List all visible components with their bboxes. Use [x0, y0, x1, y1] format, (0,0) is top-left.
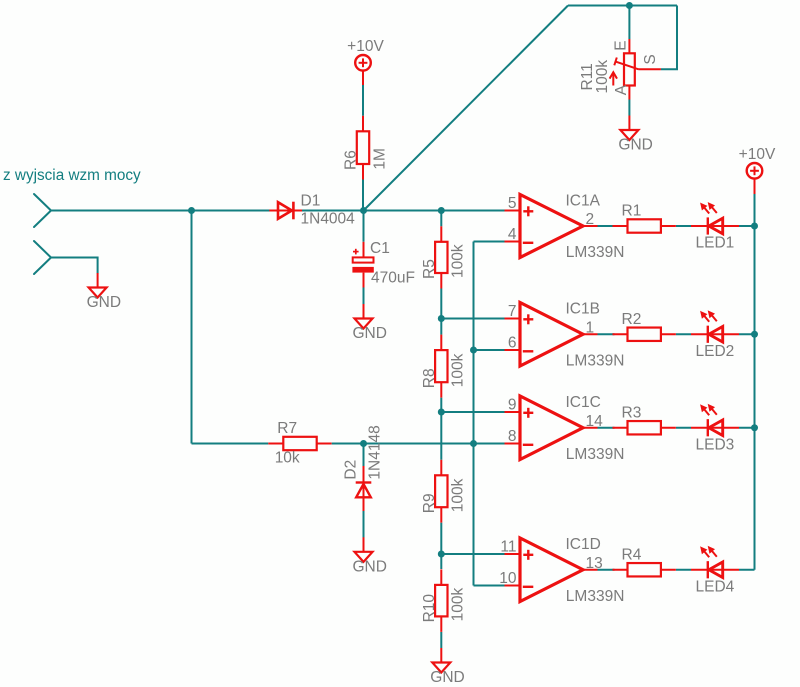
svg-text:7: 7 [508, 303, 517, 320]
ground GND3 pin [363, 304, 365, 319]
wire: signal node down to R5 [440, 211, 442, 227]
LED LED4 [709, 562, 723, 578]
op-amp IC1B output pin [583, 333, 598, 335]
svg-text:E: E [613, 40, 630, 50]
svg-text:1: 1 [586, 319, 595, 336]
svg-text:4: 4 [508, 226, 517, 243]
resistor R1 [628, 219, 661, 232]
resistor R3 pins [613, 427, 628, 429]
ground GND1 [89, 288, 107, 298]
LED LED2 pins [691, 333, 739, 335]
svg-text:R10: R10 [421, 594, 438, 623]
svg-text:1M: 1M [371, 148, 388, 170]
svg-text:LED1: LED1 [696, 235, 735, 252]
svg-text:R9: R9 [421, 493, 438, 513]
wire: R1 to LED [676, 225, 691, 227]
capacitor C1 plus mark [353, 251, 359, 253]
wire: node C to IC1D plus input [441, 553, 504, 555]
node B junction (R8/R9, IC1C+) [438, 409, 445, 416]
wire: D2 node to minus rail and IC1C minus input [364, 443, 505, 445]
wire: minus rail to IC1B minus input [474, 349, 505, 351]
wire: R2 to LED [676, 333, 691, 335]
wire: LED2 to +10V rail [739, 333, 755, 335]
resistor R5 [435, 242, 447, 273]
resistor R2 pins [613, 333, 628, 335]
svg-text:1N4004: 1N4004 [301, 211, 356, 228]
ground GND2 [620, 130, 638, 140]
resistor R3 [628, 421, 661, 434]
svg-text:GND: GND [430, 669, 464, 686]
svg-text:S: S [642, 54, 659, 64]
LED LED3 [709, 420, 723, 436]
op-amp IC1A output pin [583, 225, 598, 227]
svg-text:LM339N: LM339N [566, 353, 625, 370]
op-amp IC1B minus sign [523, 350, 534, 352]
diode D1 cathode bar [292, 202, 295, 220]
svg-text:2: 2 [586, 211, 595, 228]
capacitor C1 bottom plate [352, 267, 373, 273]
op-amp IC1B [520, 303, 583, 367]
resistor R10 [435, 585, 447, 617]
svg-text:LM339N: LM339N [566, 446, 625, 463]
op-amp IC1C [520, 396, 583, 460]
svg-text:D2: D2 [343, 460, 360, 480]
svg-text:8: 8 [508, 428, 517, 445]
wire: input return to ground [51, 258, 98, 274]
wire: D2 to ground [363, 511, 365, 538]
svg-text:9: 9 [508, 397, 517, 414]
potentiometer R11 adjust arrow [612, 74, 614, 86]
wire: R7 to D2 node [332, 443, 364, 445]
LED LED1 [709, 218, 723, 234]
svg-text:R3: R3 [622, 404, 642, 421]
svg-text:LM339N: LM339N [566, 588, 625, 605]
op-amp IC1D output pin [583, 569, 598, 571]
op-amp IC1D minus sign [523, 586, 534, 588]
ground GND5 pin [440, 648, 442, 663]
svg-text:LED4: LED4 [696, 578, 735, 595]
wire: +10V to R6 [362, 85, 364, 116]
LED LED1 light arrow 2 [712, 207, 717, 213]
svg-text:C1: C1 [370, 240, 390, 257]
svg-text:IC1D: IC1D [566, 536, 601, 553]
LED LED3 light arrow 2 [712, 409, 717, 415]
resistor R4 [628, 563, 661, 576]
svg-text:R1: R1 [622, 203, 642, 220]
op-amp IC1C minus sign [523, 444, 534, 446]
node junction rail at LED3 [751, 424, 758, 431]
wire: main signal horizontal net [51, 210, 505, 212]
resistor R5 pins [440, 226, 442, 242]
wire: node A to IC1B plus input [441, 318, 504, 320]
ground GND4 [355, 552, 373, 562]
LED LED1 light arrow 1 [704, 208, 709, 214]
op-amp IC1A minus sign [523, 242, 534, 244]
diode D2 anode pin [363, 444, 365, 467]
op-amp IC1B input pins [505, 318, 521, 320]
resistor R2 [628, 328, 661, 341]
resistor R6 pins [362, 116, 364, 132]
wire: pot S feedback loop [661, 6, 677, 70]
svg-text:LED3: LED3 [696, 436, 735, 453]
wire: op-amp output to R4 [598, 569, 615, 571]
wire: left vertical drop to R7 [191, 211, 193, 444]
wire: C1 to ground [363, 288, 365, 305]
wire: R9 to node C [440, 523, 442, 569]
ground GND5 [432, 663, 450, 673]
svg-text:6: 6 [508, 335, 517, 352]
node C junction (R9/R10, IC1D+) [438, 551, 445, 558]
svg-text:R6: R6 [343, 150, 360, 170]
capacitor C1 top plate [353, 257, 374, 262]
svg-text:IC1A: IC1A [566, 193, 601, 210]
resistor R6 [357, 131, 369, 164]
resistor R4 pins [613, 569, 628, 571]
op-amp IC1D plus sign [523, 554, 533, 556]
wire: LED1 to +10V rail [739, 225, 755, 227]
diode D1 [278, 202, 292, 219]
svg-text:10k: 10k [275, 450, 300, 467]
potentiometer R11 A pin [628, 86, 630, 100]
resistor R7 pins [268, 443, 283, 445]
wire: left rail to R7 [192, 443, 269, 445]
resistor R7 [283, 437, 316, 450]
op-amp IC1C output pin [583, 427, 598, 429]
svg-text:+10V: +10V [739, 146, 776, 163]
op-amp IC1A plus sign [523, 210, 533, 212]
op-amp IC1C plus sign [523, 412, 533, 414]
LED LED4 light arrow 1 [704, 551, 709, 557]
resistor R8 pins [440, 335, 442, 351]
LED LED4 light arrow 2 [712, 551, 717, 557]
op-amp IC1C input pins [505, 411, 521, 413]
input terminal X1 (signal) [34, 194, 51, 211]
op-amp IC1D input pins [505, 553, 521, 555]
resistor R10 pins [440, 569, 442, 585]
wire: LED3 to +10V rail [739, 427, 755, 429]
diode D2 cathode bar [356, 481, 372, 483]
wire: node to C1 [363, 211, 365, 242]
diode D2 [356, 484, 371, 497]
LED LED3 light arrow 1 [704, 409, 709, 415]
svg-text:100k: 100k [449, 478, 466, 512]
svg-text:R5: R5 [421, 259, 438, 279]
node junction rail at LED2 [751, 331, 758, 338]
wire: op-amp output to R3 [598, 427, 615, 429]
wire: op-amp output to R2 [598, 333, 615, 335]
ground GND4 pin [363, 537, 365, 552]
svg-text:R2: R2 [622, 311, 642, 328]
svg-text:R7: R7 [277, 420, 297, 437]
op-amp IC1A [520, 195, 583, 258]
wire: rail corner to LED4 [739, 569, 755, 571]
wire: minus rail vertical [473, 242, 475, 586]
wire: +10V rail vertical [754, 194, 756, 570]
resistor R9 [435, 475, 447, 507]
node junction at pot E on top rail [626, 2, 633, 9]
svg-text:5: 5 [508, 195, 517, 212]
svg-text:GND: GND [353, 325, 387, 342]
wire: R8 to node B [440, 398, 442, 460]
wire: pot A to ground [628, 100, 630, 116]
svg-text:LED2: LED2 [696, 343, 735, 360]
diode D1 pins [269, 210, 302, 212]
node junction minus rail at row B [470, 347, 477, 354]
svg-text:100k: 100k [449, 244, 466, 278]
svg-text:GND: GND [353, 558, 387, 575]
wire: R5 to node A [440, 289, 442, 335]
ground GND1 pin [97, 273, 99, 288]
LED LED2 light arrow 2 [712, 315, 717, 321]
resistor R8 [435, 350, 447, 382]
svg-text:LM339N: LM339N [566, 244, 625, 261]
svg-text:A: A [613, 84, 630, 95]
svg-text:100k: 100k [449, 353, 466, 387]
svg-text:R4: R4 [622, 546, 642, 563]
svg-text:IC1C: IC1C [566, 394, 601, 411]
node junction minus rail at row C [470, 440, 477, 447]
LED LED4 pins [691, 569, 739, 571]
LED LED1 pins [691, 225, 739, 227]
wire: node B to IC1C plus input [441, 411, 504, 413]
LED LED3 cathode bar [707, 419, 709, 436]
potentiometer R11 wiper arm [616, 62, 639, 70]
node junction at input split [188, 207, 195, 214]
node junction rail at LED1 [751, 223, 758, 230]
node junction at D1/C1/R6 [360, 207, 367, 214]
svg-text:100k: 100k [449, 588, 466, 622]
power P1 pin [362, 70, 364, 85]
input terminal X2 (return) [34, 241, 51, 258]
resistor R9 pins [440, 460, 442, 476]
capacitor C1 plus pin [363, 242, 365, 257]
svg-text:10: 10 [499, 570, 517, 587]
capacitor C1 minus pin [363, 273, 365, 288]
power P2 pin [754, 178, 756, 194]
svg-text:D1: D1 [301, 193, 321, 210]
op-amp IC1D [520, 538, 583, 602]
potentiometer R11 body [624, 53, 635, 85]
wire: minus rail to IC1D minus input [474, 585, 505, 587]
wire: op-amp output to R1 [598, 225, 615, 227]
LED LED4 cathode bar [707, 561, 709, 578]
svg-text:GND: GND [618, 137, 652, 154]
op-amp IC1A input pins [505, 210, 521, 212]
ground GND3 [355, 319, 373, 329]
node A junction (R5/R8, IC1B+) [438, 315, 445, 322]
node junction at R5 top [438, 207, 445, 214]
wire: R6 to signal node [362, 180, 364, 211]
ground GND2 pin [628, 116, 630, 131]
wire: pot E stub [628, 6, 630, 40]
wire: top horizontal rail [568, 5, 677, 7]
op-amp IC1B plus sign [523, 318, 533, 320]
resistor R1 pins [613, 225, 628, 227]
LED LED3 pins [691, 427, 739, 429]
svg-text:+10V: +10V [347, 38, 384, 55]
svg-text:IC1B: IC1B [566, 301, 600, 318]
svg-text:GND: GND [87, 294, 121, 311]
LED LED2 cathode bar [707, 326, 709, 343]
wire: diagonal from node to top rail [364, 6, 569, 211]
wire: R10 to ground [440, 632, 442, 648]
svg-text:R8: R8 [421, 368, 438, 388]
LED LED2 light arrow 1 [704, 316, 709, 322]
wire: R4 to LED [676, 569, 691, 571]
svg-text:470uF: 470uF [371, 270, 415, 287]
wire: minus rail to IC1A minus input [474, 241, 505, 243]
wire: R3 to LED [676, 427, 691, 429]
LED LED2 [709, 326, 723, 342]
LED LED1 cathode bar [707, 217, 709, 234]
potentiometer R11 wiper tip [614, 58, 617, 66]
svg-text:z wyjscia wzm mocy: z wyjscia wzm mocy [3, 167, 141, 184]
node junction at R7/D2 [360, 440, 367, 447]
svg-text:100k: 100k [594, 60, 611, 94]
potentiometer R11 E pin [628, 39, 630, 53]
svg-text:11: 11 [500, 539, 516, 556]
svg-text:1N4148: 1N4148 [367, 425, 384, 479]
potentiometer R11 S pin [639, 68, 661, 70]
